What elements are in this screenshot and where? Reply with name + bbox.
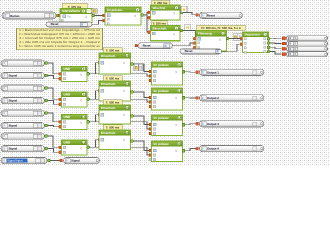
- svg-text:T: 250 ms: T: 250 ms: [152, 21, 166, 25]
- svg-text:Output 3: Output 3: [207, 122, 219, 126]
- wire group1 AND out to pulse block: [94, 74, 150, 76]
- pulse block B14 Impulsausgabe: [149, 96, 152, 99]
- value label T:100ms group3: [103, 100, 122, 105]
- svg-text:Einschalt.: Einschalt.: [101, 131, 116, 135]
- wire B2 out junction to B3 and B5 inputs: [144, 12, 150, 15]
- wire group3 capB to AND: [48, 126, 59, 127]
- value label FI:500ms for B6: [197, 25, 245, 30]
- svg-text:Q: Q: [175, 71, 177, 74]
- wire group4 AND out to pulse block: [94, 147, 150, 155]
- svg-text:Q: Q: [134, 15, 136, 18]
- svg-text:Output 4: Output 4: [207, 147, 219, 151]
- block B3 Wischrelais: [148, 11, 151, 14]
- svg-text:Einschalt.: Einschalt.: [101, 82, 116, 86]
- svg-text:H: H: [183, 7, 186, 12]
- svg-text:Output 1: Output 1: [207, 70, 219, 74]
- svg-text:Q: Q: [80, 147, 82, 150]
- svg-text:Einschalt.: Einschalt.: [153, 27, 168, 31]
- svg-text:Q: Q: [123, 90, 125, 93]
- svg-text:Signal: Signal: [71, 159, 80, 163]
- svg-text:Flimmerg .: Flimmerg .: [198, 32, 214, 36]
- svg-text:Im pulsew.: Im pulsew.: [154, 89, 170, 93]
- svg-text:Reset: Reset: [143, 44, 151, 48]
- svg-text:Im pulsew.: Im pulsew.: [154, 63, 170, 67]
- output connector Output 2: [196, 97, 199, 100]
- input connector group4 A: [1, 133, 45, 139]
- input connector group4 B Signal: [1, 146, 45, 152]
- delay block B13 Einschaltverz: [98, 89, 101, 92]
- svg-text:Signal: Signal: [9, 124, 18, 128]
- value label T:250ms for B4: [152, 21, 168, 26]
- pulse block B11 Impulsausgabe: [149, 70, 152, 73]
- wire group4 delay out to pulse block: [133, 141, 149, 151]
- parameter box L for B1: [92, 9, 97, 14]
- output connector Q1: [282, 37, 286, 40]
- wire group3 delay out to pulse block: [133, 116, 149, 125]
- svg-text:T: 500 ms: T: 500 ms: [106, 48, 120, 52]
- svg-text:UND: UND: [64, 67, 71, 71]
- svg-text:H: H: [186, 25, 189, 30]
- output connector Output 4: [196, 147, 199, 150]
- input connector Signal Input selected: [1, 157, 47, 163]
- wires B7 outputs to output connectors: [270, 37, 282, 40]
- block B4 Einschaltverz top: [148, 31, 151, 34]
- delay block B18 Einschaltverz: [98, 138, 101, 141]
- wire group4 AND out to delay block: [90, 140, 98, 148]
- wire reset marker to B2 second input: [92, 21, 103, 25]
- svg-text:T: 500 ms: T: 500 ms: [106, 76, 120, 80]
- input connector I1 Signal: [2, 12, 56, 19]
- value label T:375ms for B1: [62, 3, 87, 9]
- svg-text:Wischrel: Wischrel: [153, 6, 166, 10]
- svg-text:12: 12: [82, 115, 86, 119]
- svg-text:Q: Q: [219, 38, 221, 41]
- svg-text:Q: Q: [80, 122, 82, 125]
- parameter boxes for B7: [233, 34, 242, 41]
- marker connector Signal bottom: [60, 159, 63, 162]
- pulse block B17 Impulsausgabe: [149, 123, 152, 126]
- input connector group1 B Signal: [1, 73, 45, 79]
- wire Signal Input to Signal marker: [50, 160, 59, 162]
- svg-text:Intervallams: Intervallams: [62, 9, 80, 13]
- parameter boxes group1: [134, 64, 143, 71]
- svg-text:13: 13: [126, 82, 130, 86]
- svg-text:19: 19: [178, 142, 182, 146]
- input connector group1 A: [1, 60, 45, 66]
- svg-text:UND: UND: [64, 115, 71, 119]
- hi constant H2: [185, 25, 191, 31]
- value label T:250ms for B3: [152, 0, 170, 5]
- value label T:100ms group2: [103, 76, 122, 81]
- wire group2 AND out to delay block: [90, 91, 98, 100]
- wire group2 pulse out to output connector: [185, 97, 195, 99]
- svg-text:Signal Input: Signal Input: [7, 159, 22, 163]
- svg-text:Q: Q: [173, 12, 175, 15]
- wire group3 AND out to delay block: [90, 115, 98, 122]
- output connector Output 3: [196, 122, 199, 125]
- AND block U8: [59, 73, 62, 76]
- marker connector Reset low: [180, 49, 221, 54]
- output connector Q2: [282, 42, 286, 45]
- wire B3 out to Reset output connector: [183, 12, 196, 14]
- grid background: [0, 0, 330, 165]
- svg-text:Reset: Reset: [185, 49, 193, 53]
- output connector Output 1: [196, 71, 199, 74]
- input connector group3 A: [1, 110, 45, 116]
- delay block B16 Einschaltverz: [98, 113, 101, 116]
- wire Reset mid to B6 input2: [173, 43, 193, 46]
- value label T:100ms group4: [103, 125, 122, 130]
- svg-text:UND: UND: [64, 92, 71, 96]
- wire group1 pulse out to output connector: [185, 71, 195, 73]
- svg-text:T: 250 ms: T: 250 ms: [154, 1, 168, 5]
- svg-text:Im pulsew.: Im pulsew.: [154, 142, 170, 146]
- block B6 Flimmergeber: [193, 37, 196, 40]
- svg-text:Q: Q: [123, 62, 125, 65]
- wire group2 capA to AND: [48, 88, 59, 99]
- svg-text:16: 16: [126, 106, 130, 110]
- svg-text:Einschalt.: Einschalt.: [101, 54, 116, 58]
- svg-text:5 = Wenn +625 ms wäre 1 sommit: 5 = Wenn +625 ms wäre 1 sommit so lang k…: [19, 44, 100, 48]
- value label T:100ms group1: [103, 48, 122, 53]
- hi constant H1: [181, 6, 187, 12]
- wire B6 out to B7 input1: [229, 38, 240, 40]
- svg-text:Q: Q: [80, 74, 82, 77]
- AND block U12: [59, 121, 62, 124]
- svg-text:Sequenzer: Sequenzer: [245, 33, 261, 37]
- wire group4 capB to AND: [48, 149, 59, 153]
- svg-text:Reset: Reset: [51, 22, 59, 26]
- wire group1 delay out to pulse block: [133, 64, 149, 72]
- output marker Reset top right: [196, 14, 199, 17]
- input connector group2 B Signal: [1, 98, 45, 104]
- block B7 Sequenzer: [240, 37, 243, 40]
- svg-text:Barten: Barten: [10, 14, 19, 18]
- wire B1 out to B2 in: [95, 15, 103, 17]
- svg-text:Q: Q: [173, 33, 175, 36]
- wire Reset low to B7 input2: [221, 44, 240, 51]
- wire group2 delay out to pulse block: [133, 92, 149, 98]
- marker connector Reset under B1: [46, 22, 92, 27]
- wire group1 AND out to delay block: [90, 63, 98, 74]
- wire group2 AND out to pulse block: [94, 99, 150, 102]
- AND block U9: [59, 98, 62, 101]
- svg-text:Einschalt.: Einschalt.: [101, 106, 116, 110]
- svg-text:Q: Q: [85, 15, 87, 18]
- svg-text:T: 500 ms: T: 500 ms: [106, 125, 120, 129]
- svg-text:Im pulsew.: Im pulsew.: [107, 8, 123, 12]
- svg-text:UND: UND: [64, 140, 71, 144]
- input connector group3 B Signal: [1, 123, 45, 129]
- AND block U15: [59, 146, 62, 149]
- svg-text:Signal: Signal: [9, 99, 18, 103]
- svg-text:Output 2: Output 2: [207, 96, 219, 100]
- svg-text:Q: Q: [80, 99, 82, 102]
- wire group2 capB to AND: [48, 101, 59, 105]
- input connector group2 A: [1, 85, 45, 91]
- svg-text:Trg: Trg: [67, 15, 71, 18]
- wire group4 capA to AND: [48, 136, 59, 147]
- svg-text:Q: Q: [175, 97, 177, 100]
- svg-text:Q: Q: [175, 124, 177, 127]
- svg-text:Q: Q: [175, 150, 177, 153]
- block B2 Impulsausgabe: [103, 14, 106, 17]
- wire group3 AND out to pulse block: [94, 122, 150, 129]
- wire group3 capA to AND: [48, 113, 59, 122]
- output connector Q4: [282, 53, 286, 56]
- comment note box: [17, 28, 103, 49]
- wire group4 pulse out to output connector: [185, 149, 195, 151]
- wire B4 out to B6 input: [183, 31, 195, 38]
- svg-text:17: 17: [178, 116, 182, 120]
- svg-text:Im pulsew.: Im pulsew.: [154, 116, 170, 120]
- wire group3 pulse out to output connector: [185, 124, 195, 125]
- svg-text:18: 18: [126, 131, 130, 135]
- svg-text:Signal: Signal: [9, 74, 18, 78]
- svg-text:11: 11: [178, 63, 181, 67]
- svg-text:T: 500 ms: T: 500 ms: [106, 100, 120, 104]
- pulse block B19 Impulsausgabe: [149, 149, 152, 152]
- wire group1 capB to AND: [48, 76, 59, 79]
- block B1 Intervallzeitschalter: [58, 14, 61, 17]
- svg-text:Q: Q: [123, 139, 125, 142]
- svg-text:Q: Q: [123, 114, 125, 117]
- svg-text:15: 15: [82, 141, 86, 145]
- marker connector Reset mid: [138, 43, 173, 49]
- svg-text:Signal: Signal: [9, 147, 18, 151]
- svg-text:Reset: Reset: [207, 14, 215, 18]
- output connector Q3: [282, 47, 286, 50]
- delay block B10 Einschaltverz: [98, 61, 101, 64]
- wire group1 capA to AND: [48, 63, 59, 74]
- svg-text:10: 10: [126, 54, 130, 58]
- svg-text:14: 14: [178, 89, 182, 93]
- svg-text:FI: 500 ms, FI: 500 ms, 5 x 4: FI: 500 ms, FI: 500 ms, 5 x 4: [201, 26, 241, 30]
